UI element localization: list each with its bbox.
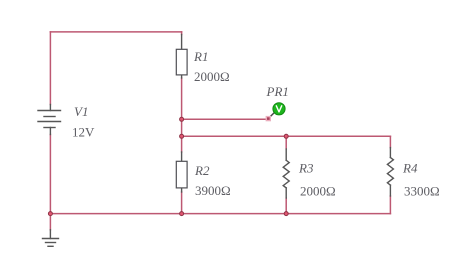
svg-text:R1: R1 xyxy=(193,49,208,64)
svg-text:PR1: PR1 xyxy=(266,84,289,99)
svg-text:V1: V1 xyxy=(74,104,88,119)
svg-text:3900Ω: 3900Ω xyxy=(195,183,231,198)
svg-text:R3: R3 xyxy=(298,161,314,176)
svg-text:R4: R4 xyxy=(402,161,418,176)
svg-text:R2: R2 xyxy=(194,163,210,178)
svg-text:12V: 12V xyxy=(72,125,95,140)
svg-text:2000Ω: 2000Ω xyxy=(300,184,336,199)
svg-text:3300Ω: 3300Ω xyxy=(404,184,440,199)
svg-text:2000Ω: 2000Ω xyxy=(194,69,230,84)
